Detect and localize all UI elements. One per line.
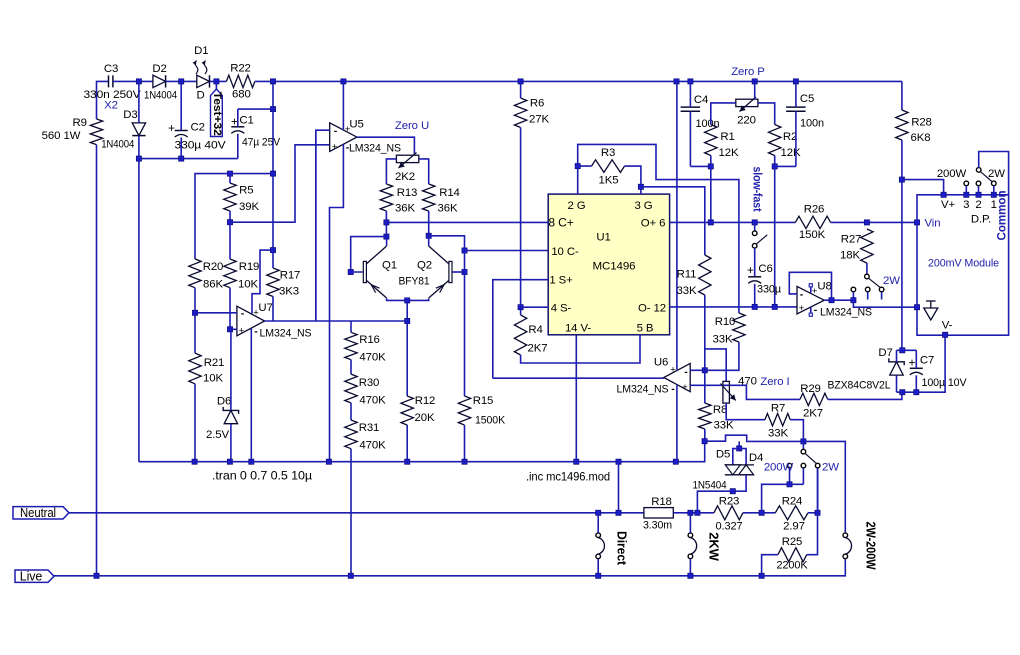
svg-text:39K: 39K [239,201,259,213]
svg-text:D1: D1 [194,45,208,57]
svg-text:R23: R23 [719,496,740,508]
svg-text:330µ 40V: 330µ 40V [175,140,227,152]
label C7 [909,355,967,390]
svg-text:+: + [670,365,676,376]
wire R28 bottom [901,140,903,350]
resistor R22 [226,75,255,87]
node pin10 junction [462,248,467,253]
wire sel pole stub [802,441,804,449]
resistor R16 [345,332,357,359]
wire C4 leads [689,81,691,166]
wire R18 right [673,512,714,514]
plug 2W-200W [843,533,852,559]
svg-text:R16: R16 [359,334,380,346]
svg-text:Zero I: Zero I [760,376,789,388]
wire clamp bottom [697,475,746,513]
wire R6 leads [520,81,522,307]
label R10 [713,316,736,346]
svg-text:14 V-: 14 V- [565,323,591,335]
wire D1 to R22 [210,80,227,82]
wire Neutral line [69,512,644,514]
svg-text:330µ: 330µ [757,284,782,296]
svg-text:2W: 2W [822,462,839,474]
label C6 [747,263,782,296]
node D7 bottom [900,390,905,395]
node pin 2 [976,192,981,197]
resistor R4 [514,315,526,355]
svg-text:R29: R29 [800,383,821,395]
wire 2KW stubs [689,513,691,576]
node R5 top [227,171,232,176]
node R2/O-12 [772,304,777,309]
node x273/173 [270,171,275,176]
svg-text:220: 220 [737,115,756,127]
wire U7 - input [195,312,237,314]
switch range contacts [851,287,884,299]
resistor R20 [189,259,201,288]
wire O-12 line [670,306,797,308]
wire R12 bottom [406,425,408,462]
wire Q2 collector lead [428,236,430,246]
svg-text:O+ 6: O+ 6 [641,218,666,230]
node R21/rail [192,459,197,464]
label R11 [677,269,697,298]
resistor R12 [401,396,413,425]
svg-text:47µ 25V: 47µ 25V [242,137,280,149]
svg-text:36K: 36K [395,203,415,215]
wire C2 leads [180,81,182,158]
diode D2 [153,75,166,87]
capacitor C1 [231,127,244,134]
wire R24r down [807,513,818,555]
D1 light arrows [193,61,207,75]
svg-text:.tran 0 0.7 0.5 10µ: .tran 0 0.7 0.5 10µ [212,469,312,483]
label D6 [206,396,231,442]
wire U7 V+ path [252,250,273,314]
svg-text:33K: 33K [768,428,788,440]
wire pot left lead [386,159,396,184]
node R5 bottom [227,220,232,225]
node R6/pin4 [518,305,523,310]
switch watt blade [805,453,816,463]
wire C3 to D2 [113,80,153,82]
wire C1 top jog [238,108,273,110]
capacitor C7 [910,368,923,375]
diodes D5 D4 [725,465,754,475]
capacitor C3 [109,75,113,87]
label D3 [101,109,137,151]
wire R15 top [464,272,466,396]
label C5 [800,93,824,130]
node clamp bottom [730,489,735,494]
node R3 right [638,184,643,189]
node R8 bottom [702,439,707,444]
wire pin2 to 2G net [578,144,739,309]
wire R16-R30 [350,360,352,374]
resistor R28 [896,110,908,140]
wire contact1 to U8 out [852,292,854,300]
wire R5 leads [229,174,231,223]
wire pin8 C+ line [386,221,548,223]
wire R2/C5 node [775,156,796,307]
svg-text:R9: R9 [73,117,87,129]
svg-text:-: - [684,366,688,378]
label 220 [737,115,756,127]
svg-text:Test+32: Test+32 [211,92,223,136]
node D7 top [900,348,905,353]
svg-text:33K: 33K [713,334,733,346]
U5 input markers [332,124,351,154]
wire U7 output [265,320,408,322]
svg-text:R1: R1 [720,131,734,143]
op-amp U8 [797,286,824,314]
svg-text:Live: Live [20,569,43,583]
node rail pot220 [752,79,757,84]
svg-text:470K: 470K [359,440,386,452]
zener D7 [889,358,904,375]
svg-text:R25: R25 [782,536,803,548]
svg-text:-: - [800,288,804,300]
resistor R9 [90,119,102,145]
wire R25 left [762,555,778,576]
svg-text:LM324_NS: LM324_NS [617,384,669,396]
U5 V+ stub [342,81,344,130]
op-amp U7 [237,306,265,336]
resistor R6 [514,98,526,128]
Test+32 flag stub [215,81,217,89]
switch range pole [865,274,870,279]
node R27 top [864,220,869,225]
svg-text:10K: 10K [203,373,223,385]
node R31/Live [348,573,353,578]
svg-text:8 C+: 8 C+ [548,216,573,230]
svg-text:R8: R8 [713,404,727,416]
resistor R21 [189,353,201,384]
svg-text:C6: C6 [758,263,772,275]
svg-text:100µ 10V: 100µ 10V [922,377,967,389]
node clamp top [737,446,742,451]
wire +32V rail [255,80,902,82]
resistor R13 [380,184,392,211]
label U6 [617,357,669,396]
label R7 [768,403,788,440]
wire emitters to R12 [406,300,408,396]
svg-text:+: + [239,325,245,336]
wire pot220 left [711,103,736,125]
node module bottom [943,332,948,337]
node U8 out [829,298,834,303]
svg-text:1N4004: 1N4004 [101,139,134,151]
label R16 [359,334,386,364]
node C6/O-12 [752,304,757,309]
wire pin4 S- line [521,306,549,308]
resistor R19 [224,259,236,288]
capacitor C2 [175,131,188,138]
resistor R24 [775,506,808,520]
node rail x273 [270,79,275,84]
node contact link [787,482,792,487]
svg-text:R22: R22 [230,63,251,75]
plug Direct [596,533,605,559]
capacitor C4 [681,107,701,111]
svg-text:D3: D3 [123,109,137,121]
svg-text:R27: R27 [841,234,862,246]
wire R27 bottom [866,263,868,274]
svg-text:BZX84C8V2L: BZX84C8V2L [828,380,891,392]
wire contactL drop [789,468,791,484]
svg-text:2W: 2W [883,275,900,287]
wire D2 to D1 [166,80,197,82]
node C3/D2/D3 [136,79,141,84]
svg-text:C3: C3 [104,63,118,75]
svg-text:2.5V: 2.5V [206,429,230,441]
label 200W top [937,168,967,180]
svg-text:-: - [814,304,818,316]
wire x273 column [272,81,274,250]
svg-text:3.30m: 3.30m [643,520,672,532]
node Q2 base [462,269,467,274]
label R2 [781,131,801,159]
svg-text:R15: R15 [473,395,494,407]
wire R5bot to U5+ [230,145,330,222]
resistor R2 [769,125,781,156]
op-amp U6 [664,363,690,391]
potentiometer 220 [736,97,758,112]
svg-text:+: + [909,356,916,370]
wire Q2 base loop [429,236,465,251]
label R28 [911,117,932,145]
wire R14 bottom [428,211,430,236]
svg-text:100n: 100n [800,118,824,130]
potentiometer 2K2 [396,153,418,169]
svg-text:V-: V- [942,320,953,332]
node D3/bar [136,156,141,161]
wire U8out to module [853,300,917,307]
label C3 [84,63,142,112]
svg-text:R24: R24 [782,496,803,508]
node rail C5 [793,79,798,84]
resistor R11 [699,255,711,295]
wire contact link [762,484,804,513]
wire R8 top [704,370,706,403]
node emitters/U7out [405,318,410,323]
svg-text:200W: 200W [937,168,967,180]
label R8 [713,404,734,432]
wire pole to Common [979,152,1009,195]
svg-text:150K: 150K [799,229,826,241]
svg-text:560 1W: 560 1W [42,130,81,142]
node R2 bottom [772,164,777,169]
wire Q1 base loop [351,237,387,272]
module selector contacts [964,181,996,195]
module selector blade [980,172,992,182]
node R23/R24 [759,510,764,515]
svg-text:0.327: 0.327 [716,521,743,533]
wire switch to C6 [754,248,756,277]
wire pin14 V- [575,335,577,462]
node 2KW Live [688,573,693,578]
label R26 [799,204,826,242]
svg-text:2W-200W: 2W-200W [864,522,879,571]
svg-text:U8: U8 [817,281,831,293]
U5 V- stub [330,144,344,462]
wire C1 leads [237,109,239,159]
node D6/rail [227,459,232,464]
svg-text:V+: V+ [941,199,955,211]
svg-text:+: + [253,308,259,319]
label R18 [643,496,672,532]
Neutral flag [13,506,69,520]
U6 V- stub [676,385,678,462]
svg-text:+: + [332,142,338,153]
node rail pin14 [574,459,579,464]
svg-text:2K2: 2K2 [395,171,415,183]
label R5 [239,185,259,214]
wire PSU ground bar [139,158,238,160]
svg-text:-: - [334,125,338,137]
svg-text:C1: C1 [239,115,253,127]
node Q1 collector [384,234,389,239]
svg-text:6K8: 6K8 [911,132,931,144]
svg-text:2K7: 2K7 [803,408,823,420]
node R12/rail [405,459,410,464]
svg-text:R30: R30 [359,377,380,389]
op-amp U5 [330,123,357,152]
svg-text:Q2: Q2 [417,260,432,272]
label R13 [395,187,417,215]
wire R30-R31 [350,403,352,420]
node rail U6 V+ [674,79,679,84]
label .tran [212,469,312,483]
svg-text:2: 2 [975,199,981,211]
svg-text:10 C-: 10 C- [551,246,579,258]
wire D7 leads [896,350,898,392]
svg-text:1K5: 1K5 [599,175,619,187]
wire U7out to U5 [315,130,317,321]
svg-text:200mV Module: 200mV Module [928,258,999,270]
wire rail-neutral link [618,462,620,513]
wire R8 line jog [705,435,804,441]
wire O+6 line [670,221,796,223]
wire R24r up [817,468,819,513]
plug 2KW [688,533,697,559]
svg-text:-: - [254,325,258,337]
svg-text:Common: Common [995,191,1009,241]
node rail R6 [518,79,523,84]
svg-text:Direct: Direct [615,531,630,566]
label R20 [203,261,224,291]
svg-text:+: + [682,382,688,393]
svg-text:+: + [345,124,351,135]
label 200W low [764,462,794,474]
wire R7 right [790,420,803,442]
wire R24 right [808,512,818,514]
svg-text:2K7: 2K7 [528,343,548,355]
label Q1 [382,260,397,272]
svg-text:R2: R2 [783,131,797,143]
svg-text:27K: 27K [529,114,549,126]
node Q2 collector [426,233,431,238]
label C2 [168,121,226,152]
svg-text:470: 470 [738,376,757,388]
svg-text:33K: 33K [677,285,697,297]
node D2/C2 [179,79,184,84]
U1 pin labels [548,200,666,335]
node rail neutral-link [616,459,621,464]
svg-text:C4: C4 [694,94,708,106]
wire R9 to Live [96,145,98,576]
svg-text:12K: 12K [719,147,739,159]
node R3 left [575,164,580,169]
wire R17 leads [272,250,274,321]
wire R26 to Vin [831,221,917,223]
wire Direct stubs [597,513,599,576]
wire U8 feedback [789,272,831,300]
label R12 [415,395,436,424]
svg-text:R12: R12 [415,395,436,407]
wire C7 leads [915,350,917,392]
resistor R7 [765,414,790,426]
wire U5 inv input [316,130,330,321]
svg-text:.inc mc1496.mod: .inc mc1496.mod [526,470,610,484]
wire pin10 C- line [465,250,549,252]
wire R28 top [901,81,903,110]
svg-text:+: + [799,303,805,314]
node R1 bottom [708,164,713,169]
label Q2 [399,260,433,288]
resistor R14 [423,184,435,211]
resistor R17 [267,268,279,297]
switch range blade [869,278,880,287]
node R18/2KW [688,510,693,515]
label U5 [349,119,429,155]
label 2W-200W [864,522,879,571]
label D2 [144,63,177,102]
wire pin3 to 3G net [641,187,705,255]
resistor R23 [714,506,743,520]
label R1 [719,131,739,159]
label R31 [359,422,386,452]
svg-text:R7: R7 [771,403,785,415]
node pin 3 [964,192,969,197]
svg-text:2KW: 2KW [707,532,722,561]
switch slow-fast [752,231,767,248]
svg-text:R14: R14 [439,187,460,199]
wire R19 bottom [229,288,231,330]
node clamp/neutral [695,510,700,515]
svg-text:+: + [747,263,754,277]
svg-text:R21: R21 [204,357,225,369]
svg-text:2 G: 2 G [567,200,585,212]
wire R3 left / pin2 [578,166,592,194]
U6 V+ stub [676,81,678,369]
node Neutral Direct [596,510,601,515]
svg-text:C5: C5 [800,93,814,105]
svg-text:33K: 33K [714,420,734,432]
wire bar to bottom rail [138,159,140,462]
svg-text:3K3: 3K3 [279,286,299,298]
svg-text:2W: 2W [988,168,1005,180]
resistor R15 [458,396,470,425]
label D1 [194,45,208,102]
svg-text:U1: U1 [596,232,610,244]
wire R3 right / pin3 [625,166,641,194]
wire switch stub [754,222,756,230]
wire U8 output [824,299,853,301]
label R14 [438,187,460,215]
wire contactR drop [817,468,819,513]
svg-text:R18: R18 [651,496,672,508]
